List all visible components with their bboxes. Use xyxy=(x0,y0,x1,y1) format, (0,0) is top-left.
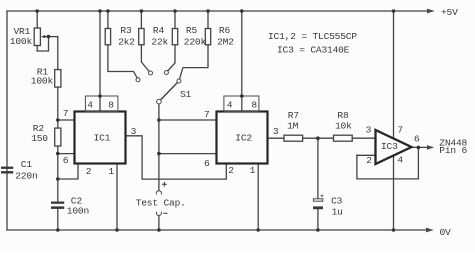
svg-text:+5V: +5V xyxy=(441,7,458,18)
svg-text:6: 6 xyxy=(63,155,69,166)
svg-text:6: 6 xyxy=(204,158,210,169)
svg-text:4: 4 xyxy=(87,100,93,111)
svg-text:Pin 6: Pin 6 xyxy=(439,145,467,156)
svg-text:3: 3 xyxy=(131,126,137,137)
svg-text:4: 4 xyxy=(397,155,403,166)
svg-text:IC3: IC3 xyxy=(381,141,398,152)
svg-text:IC1,2 = TLC555CP: IC1,2 = TLC555CP xyxy=(268,31,357,42)
svg-text:R3: R3 xyxy=(120,25,132,36)
svg-text:IC2: IC2 xyxy=(235,132,252,143)
svg-text:R4: R4 xyxy=(153,25,165,36)
svg-text:2k2: 2k2 xyxy=(118,36,135,47)
svg-text:2: 2 xyxy=(366,155,372,166)
svg-text:3: 3 xyxy=(366,124,372,135)
svg-text:1: 1 xyxy=(108,166,114,177)
svg-text:22k: 22k xyxy=(151,36,168,47)
svg-text:IC1: IC1 xyxy=(94,132,111,143)
svg-text:R6: R6 xyxy=(219,25,231,36)
svg-text:3: 3 xyxy=(273,126,279,137)
svg-text:0V: 0V xyxy=(440,227,452,238)
svg-text:S1: S1 xyxy=(180,89,192,100)
svg-text:220n: 220n xyxy=(15,171,37,182)
svg-text:1: 1 xyxy=(250,165,256,176)
svg-text:150: 150 xyxy=(31,133,48,144)
svg-text:220k: 220k xyxy=(184,36,207,47)
svg-text:C1: C1 xyxy=(21,159,33,170)
svg-text:10k: 10k xyxy=(335,120,352,131)
svg-text:R7: R7 xyxy=(288,110,299,121)
svg-text:1u: 1u xyxy=(332,206,343,217)
svg-text:Test Cap.: Test Cap. xyxy=(136,197,186,208)
svg-text:2: 2 xyxy=(228,165,234,176)
svg-text:7: 7 xyxy=(397,124,403,135)
svg-text:IC3 = CA3140E: IC3 = CA3140E xyxy=(277,45,350,56)
svg-text:R8: R8 xyxy=(337,110,349,121)
svg-text:C3: C3 xyxy=(331,196,343,207)
svg-text:2M2: 2M2 xyxy=(217,36,234,47)
svg-text:R5: R5 xyxy=(186,25,198,36)
svg-text:6: 6 xyxy=(414,134,420,145)
svg-text:100n: 100n xyxy=(67,205,89,216)
svg-text:100k: 100k xyxy=(10,36,33,47)
svg-text:7: 7 xyxy=(204,109,210,120)
svg-text:2: 2 xyxy=(86,166,92,177)
svg-text:100k: 100k xyxy=(31,76,54,87)
svg-text:4: 4 xyxy=(227,100,233,111)
svg-text:7: 7 xyxy=(63,108,69,119)
svg-text:8: 8 xyxy=(108,100,114,111)
svg-text:8: 8 xyxy=(251,100,257,111)
svg-text:1M: 1M xyxy=(287,120,299,131)
